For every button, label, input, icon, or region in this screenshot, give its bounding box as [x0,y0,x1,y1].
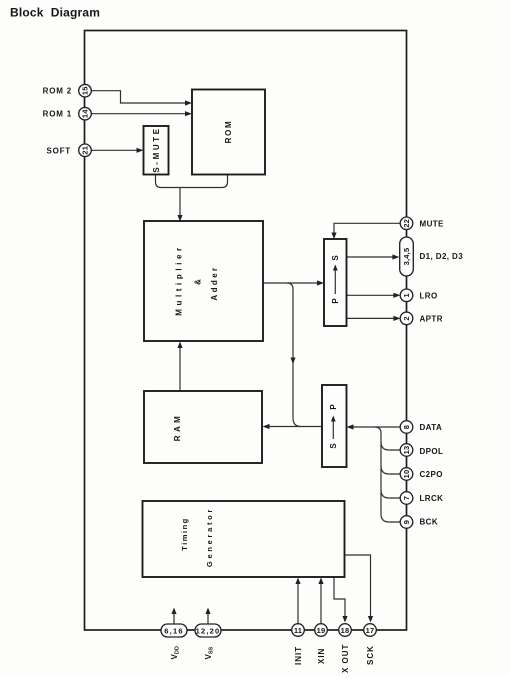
svg-text:ROM: ROM [224,120,233,144]
svg-text:C2PO: C2PO [420,470,443,479]
svg-text:ROM 2: ROM 2 [43,87,72,96]
pin 1 LRO [400,289,413,302]
svg-text:SOFT: SOFT [46,147,71,156]
svg-text:LRO: LRO [420,291,438,300]
wire MUTE to P-S top [334,223,401,233]
svg-text:DPOL: DPOL [420,447,444,456]
svg-text:15: 15 [81,86,90,95]
pin 2 APTR [400,312,413,325]
block Timing Generator [143,501,345,577]
wire C2PO curve to bus [381,466,400,474]
svg-text:18: 18 [341,626,350,635]
svg-text:S: S [329,443,338,449]
pin 17 SCK [364,624,377,637]
svg-text:S: S [331,255,340,261]
wire XIN to Timing Generator [320,583,322,623]
svg-text:P: P [331,298,340,304]
svg-text:&: & [194,279,203,285]
svg-text:ROM 1: ROM 1 [43,110,72,119]
pin 22 MUTE [400,217,413,230]
svg-text:1: 1 [402,293,411,297]
wire DPOL curve to bus [381,442,400,450]
svg-text:LRCK: LRCK [420,494,444,503]
wire S-MUTE and ROM merge to Multiplier [156,175,228,216]
block Multiplier & Adder [144,221,263,341]
pin 13 DPOL [400,444,413,457]
svg-text:Block Diagram: Block Diagram [10,6,100,20]
svg-text:3,4,5: 3,4,5 [402,248,411,266]
svg-text:VSS: VSS [204,646,215,659]
svg-text:19: 19 [317,626,326,635]
pin 19 XIN [315,624,328,637]
wire Timing Generator to X OUT [334,577,345,616]
pin 8 DATA [400,421,413,434]
wire Multiplier output to P-S [263,282,319,284]
wire VDD stub arrow [173,613,175,624]
svg-text:MUTE: MUTE [420,219,445,228]
svg-text:7: 7 [402,496,411,500]
svg-text:Generator: Generator [205,507,214,567]
svg-text:P: P [329,404,338,410]
wire LRCK curve to bus [381,490,400,498]
svg-text:10: 10 [402,470,411,479]
pin 7 LRCK [400,492,413,505]
svg-text:S-MUTE: S-MUTE [152,126,161,172]
svg-text:X OUT: X OUT [341,644,350,673]
pin 14 ROM 1 [79,107,92,120]
svg-text:12,20: 12,20 [196,627,221,636]
pin 18 X OUT [339,624,352,637]
wire BCK curve to bus [381,514,400,522]
wire RAM to Multiplier [179,348,181,392]
pin 11 INIT [292,624,305,637]
svg-text:D1, D2, D3: D1, D2, D3 [420,252,464,261]
svg-text:6,16: 6,16 [164,627,183,636]
pin 21 SOFT [79,144,92,157]
wire bus vertical joining DATA line [375,427,382,514]
block S-MUTE [144,126,169,175]
svg-text:22: 22 [402,219,411,228]
svg-text:DATA: DATA [420,423,443,432]
wire ROM2 to ROM [91,91,186,103]
svg-text:SCK: SCK [366,645,375,665]
wire DATA to S-P [352,426,401,428]
block P to S converter [324,239,347,326]
wire ROM1 to ROM [91,113,186,115]
wire S-P output to RAM [268,426,322,428]
block ROM [192,90,265,175]
svg-text:Timing: Timing [180,517,189,550]
wire INIT to Timing Generator [297,583,299,623]
wire P-S to APTR [347,317,395,319]
pin 12,20 VSS [195,624,221,637]
chip boundary [85,31,407,631]
svg-text:14: 14 [81,109,90,118]
wire VSS stub arrow [207,613,209,624]
block RAM [144,391,262,463]
wire P-S to LRO [347,294,395,296]
pin 6,16 VDD [161,624,187,637]
pin 15 ROM 2 [79,84,92,97]
pin 10 C2PO [400,468,413,481]
svg-text:RAM: RAM [173,413,182,441]
svg-text:9: 9 [402,520,411,524]
svg-text:Adder: Adder [210,265,219,300]
wire P-S to D1,D2,D3 [347,256,394,258]
svg-text:XIN: XIN [317,648,326,664]
svg-text:17: 17 [366,626,375,635]
svg-text:APTR: APTR [420,314,443,323]
wire branch Multiplier output down to RAM input line [287,283,301,427]
svg-text:BCK: BCK [420,518,439,527]
svg-text:2: 2 [402,316,411,320]
svg-text:INIT: INIT [294,646,303,665]
pin 3,4,5 D1,D2,D3 [400,237,414,276]
pin 9 BCK [400,516,413,529]
svg-text:8: 8 [402,425,411,429]
svg-text:11: 11 [294,626,302,635]
wire SOFT to S-MUTE [91,149,138,151]
svg-text:VDD: VDD [170,646,181,659]
svg-text:21: 21 [81,146,90,155]
svg-text:Multiplier: Multiplier [175,244,184,316]
block S to P converter [322,385,347,467]
svg-text:13: 13 [402,446,411,455]
wire Timing Generator to SCK [345,555,371,616]
